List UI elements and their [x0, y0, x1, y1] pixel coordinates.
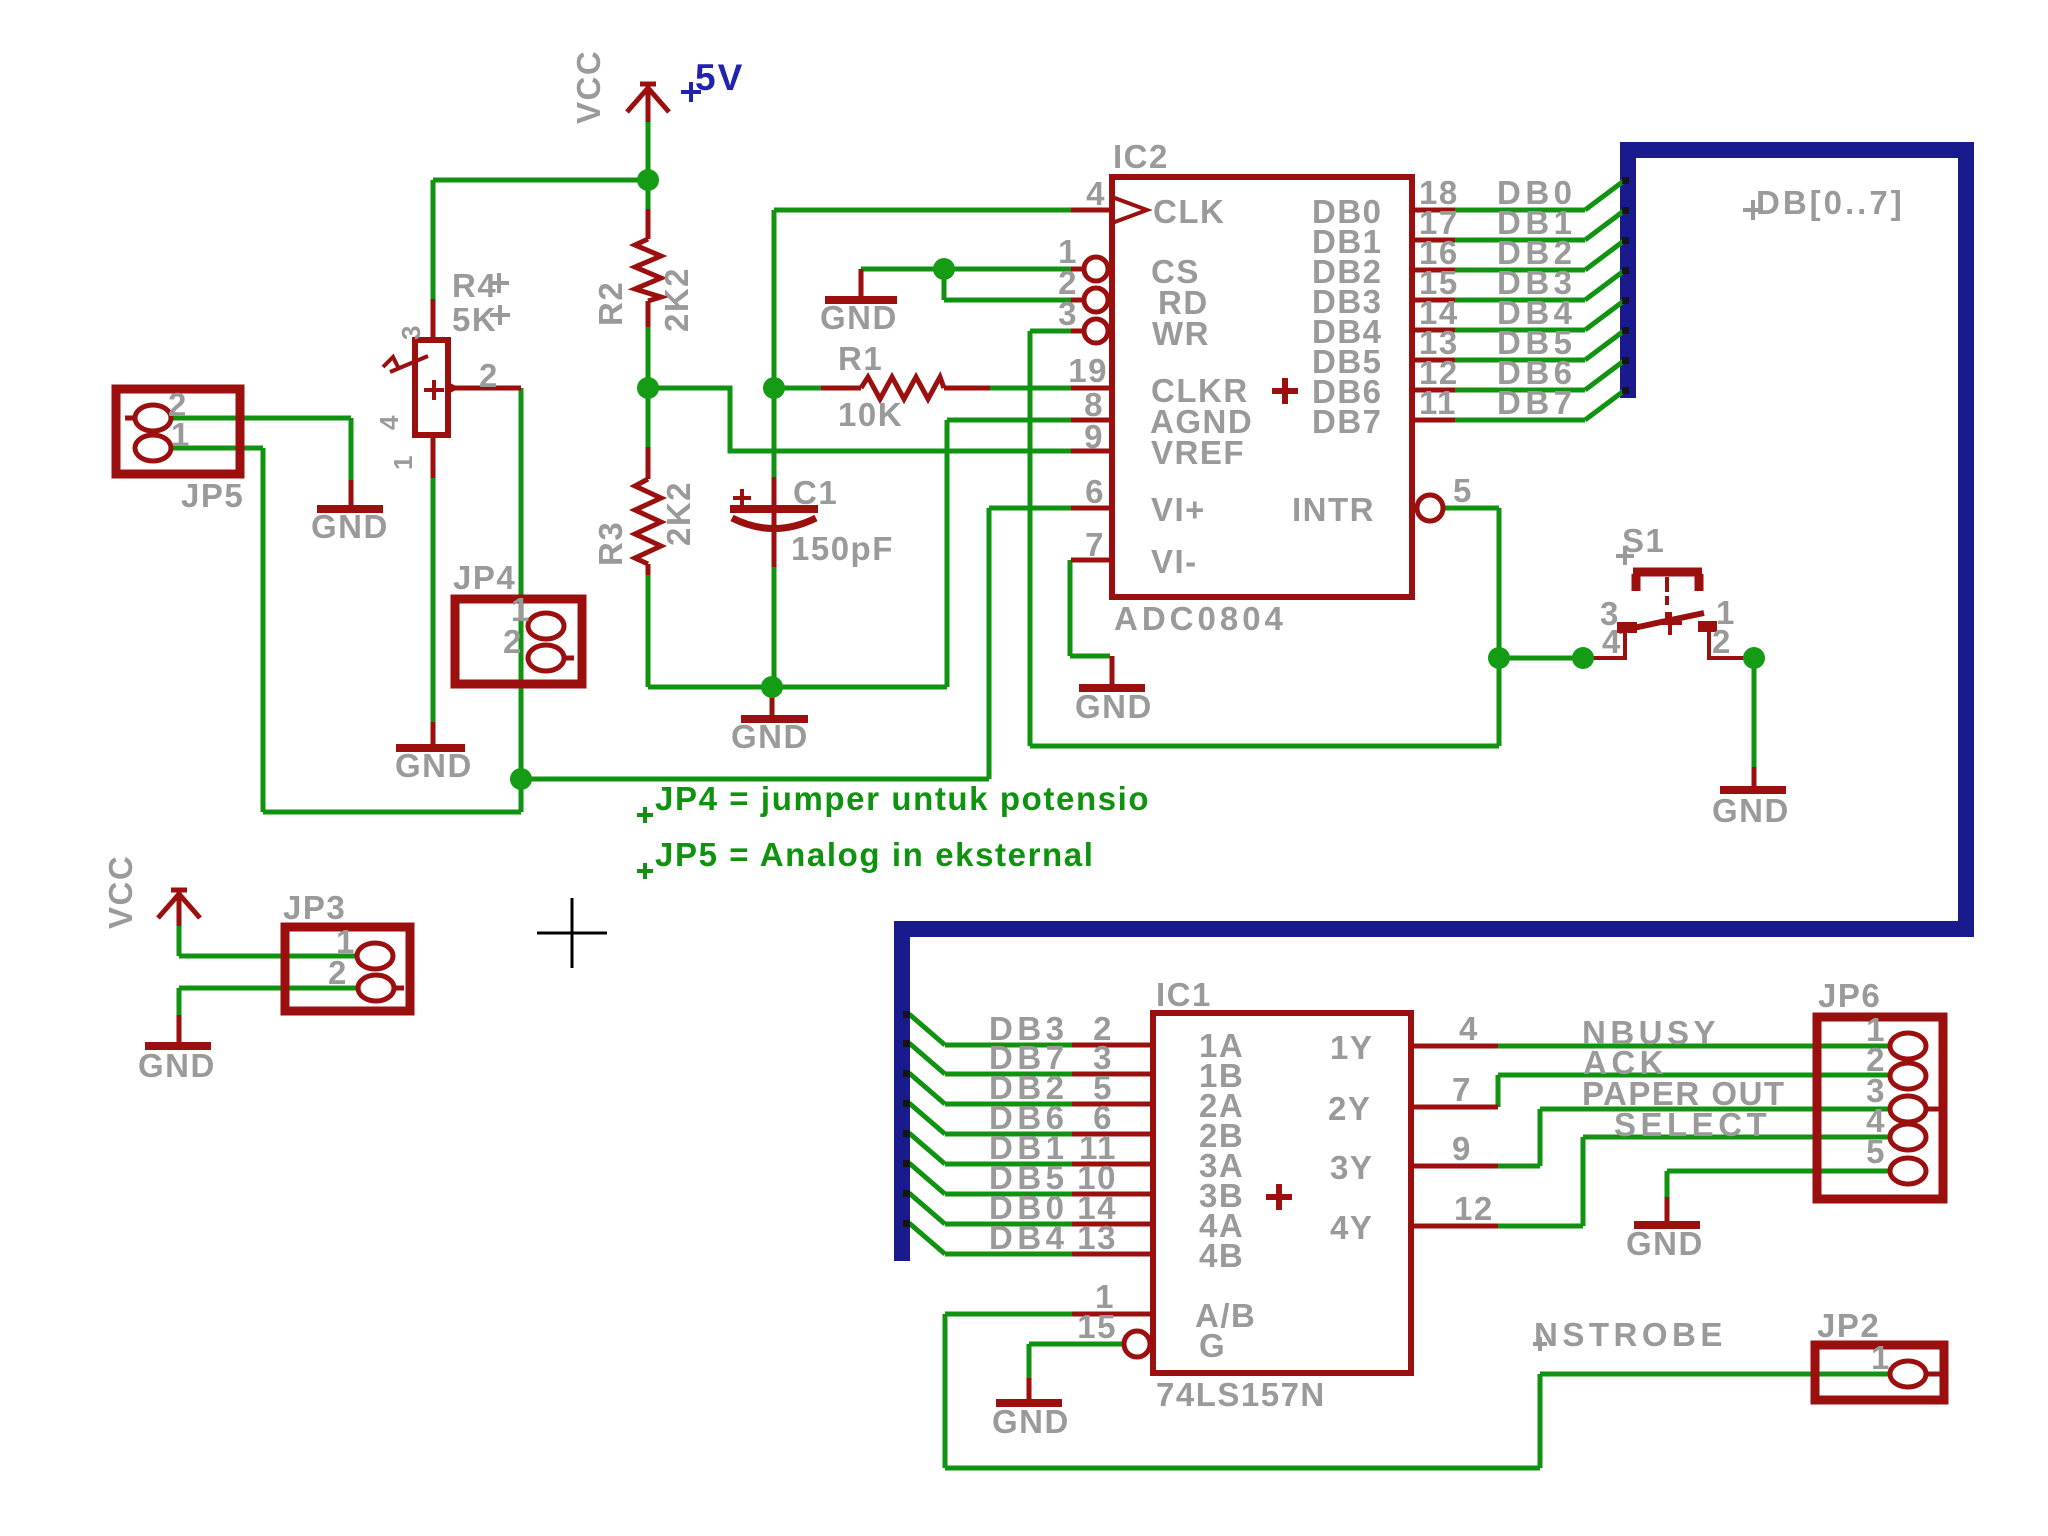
- svg-text:7: 7: [1085, 526, 1105, 563]
- svg-text:1Y: 1Y: [1330, 1029, 1373, 1066]
- svg-text:S1: S1: [1622, 522, 1665, 559]
- svg-text:C1: C1: [793, 474, 838, 511]
- svg-text:5: 5: [1453, 472, 1473, 509]
- svg-text:DB[0..7]: DB[0..7]: [1756, 184, 1905, 221]
- svg-text:JP3: JP3: [283, 889, 346, 926]
- svg-text:2K2: 2K2: [660, 481, 697, 546]
- svg-text:VREF: VREF: [1151, 434, 1245, 471]
- svg-text:2: 2: [503, 623, 523, 660]
- svg-text:4: 4: [374, 414, 404, 430]
- svg-text:VI-: VI-: [1151, 543, 1198, 580]
- svg-text:2K2: 2K2: [658, 267, 695, 332]
- svg-text:R4: R4: [452, 267, 497, 304]
- svg-text:VCC: VCC: [102, 855, 139, 929]
- svg-text:R2: R2: [592, 281, 629, 326]
- svg-text:9: 9: [1452, 1130, 1472, 1167]
- svg-text:5: 5: [1866, 1133, 1886, 1170]
- svg-text:GND: GND: [311, 508, 389, 545]
- svg-text:13: 13: [1077, 1219, 1117, 1256]
- svg-text:3: 3: [1058, 295, 1078, 332]
- svg-text:GND: GND: [992, 1403, 1070, 1440]
- svg-text:ADC0804: ADC0804: [1114, 600, 1287, 637]
- svg-text:12: 12: [1454, 1190, 1494, 1227]
- svg-text:4: 4: [1459, 1010, 1479, 1047]
- svg-text:GND: GND: [1712, 792, 1790, 829]
- svg-text:DB7: DB7: [1312, 403, 1383, 440]
- svg-text:2: 2: [328, 954, 348, 991]
- svg-text:IC1: IC1: [1156, 976, 1212, 1013]
- svg-text:15: 15: [1077, 1308, 1117, 1345]
- svg-text:GND: GND: [395, 747, 473, 784]
- svg-text:4B: 4B: [1199, 1237, 1244, 1274]
- svg-text:9: 9: [1084, 418, 1104, 455]
- svg-text:NSTROBE: NSTROBE: [1534, 1316, 1727, 1353]
- svg-text:1: 1: [171, 416, 191, 453]
- svg-text:74LS157N: 74LS157N: [1156, 1376, 1326, 1413]
- svg-text:11: 11: [1419, 384, 1457, 421]
- svg-text:4: 4: [1086, 175, 1106, 212]
- svg-text:10K: 10K: [838, 396, 903, 433]
- svg-text:2: 2: [479, 357, 499, 394]
- svg-text:SELECT: SELECT: [1614, 1106, 1771, 1143]
- svg-text:GND: GND: [1075, 688, 1153, 725]
- svg-text:GND: GND: [1626, 1225, 1704, 1262]
- svg-text:INTR: INTR: [1292, 491, 1375, 528]
- svg-text:19: 19: [1068, 352, 1108, 389]
- svg-text:1: 1: [1871, 1339, 1891, 1376]
- svg-text:4: 4: [1602, 623, 1622, 660]
- svg-text:1: 1: [388, 454, 418, 470]
- svg-text:5V: 5V: [695, 57, 744, 98]
- svg-text:JP5 = Analog in eksternal: JP5 = Analog in eksternal: [655, 836, 1095, 873]
- svg-text:JP5: JP5: [181, 477, 244, 514]
- svg-text:DB4: DB4: [989, 1219, 1069, 1256]
- svg-text:GND: GND: [731, 718, 809, 755]
- svg-text:R1: R1: [838, 340, 883, 377]
- svg-text:6: 6: [1085, 473, 1105, 510]
- svg-text:R3: R3: [592, 521, 629, 566]
- svg-text:2Y: 2Y: [1328, 1090, 1371, 1127]
- svg-text:GND: GND: [138, 1047, 216, 1084]
- svg-text:2: 2: [1712, 623, 1732, 660]
- svg-text:JP4 = jumper untuk potensio: JP4 = jumper untuk potensio: [655, 780, 1150, 817]
- svg-text:IC2: IC2: [1113, 138, 1169, 175]
- svg-text:4Y: 4Y: [1330, 1209, 1373, 1246]
- svg-text:CLK: CLK: [1153, 193, 1225, 230]
- svg-text:DB7: DB7: [1497, 384, 1577, 421]
- svg-text:JP4: JP4: [453, 559, 516, 596]
- svg-text:7: 7: [1452, 1071, 1472, 1108]
- svg-text:VI+: VI+: [1151, 491, 1206, 528]
- svg-text:G: G: [1199, 1327, 1226, 1364]
- svg-text:150pF: 150pF: [791, 530, 894, 567]
- svg-text:JP6: JP6: [1818, 977, 1881, 1014]
- svg-text:VCC: VCC: [570, 50, 607, 124]
- svg-text:3: 3: [396, 324, 426, 340]
- svg-text:GND: GND: [820, 299, 898, 336]
- svg-text:WR: WR: [1152, 315, 1210, 352]
- svg-text:3Y: 3Y: [1330, 1149, 1373, 1186]
- svg-text:5K: 5K: [452, 301, 497, 338]
